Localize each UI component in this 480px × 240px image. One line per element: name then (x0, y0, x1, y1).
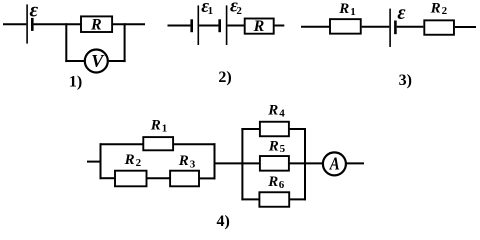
svg-text:2): 2) (218, 69, 231, 86)
battery ε2 long plate (226, 5, 228, 45)
svg-text:1: 1 (208, 5, 214, 17)
svg-text:2: 2 (442, 5, 448, 17)
wire left vertical (left parallel group) (100, 143, 102, 179)
wire bottom branch right (right group) (289, 198, 306, 200)
ammeter A (323, 152, 346, 175)
battery ε1 long plate (197, 5, 199, 45)
resistor R2 (circuit 3) (424, 20, 454, 34)
svg-text:R: R (178, 153, 189, 169)
wire right vertical (left parallel group) (214, 143, 216, 179)
svg-text:5: 5 (280, 143, 286, 155)
battery ε short thick plate (31, 18, 34, 31)
svg-text:6: 6 (279, 179, 285, 191)
wire right lead circuit 3 (455, 26, 476, 28)
wire top branch left segment (100, 143, 144, 145)
resistor R (circuit 2) (245, 19, 274, 34)
svg-text:R: R (124, 152, 135, 168)
svg-text:1): 1) (69, 73, 82, 90)
svg-text:2: 2 (236, 5, 242, 17)
resistor R4 (260, 122, 289, 137)
svg-text:ε: ε (30, 0, 39, 22)
wire right lead circuit 4 (346, 162, 364, 164)
wire top branch right segment (174, 143, 216, 145)
svg-text:1: 1 (350, 6, 356, 18)
svg-text:R: R (267, 103, 278, 119)
resistor R (circuit 1) (81, 16, 112, 32)
wire R5 to right vertical (289, 162, 306, 164)
wire top branch right (right group) (289, 128, 306, 130)
svg-text:R: R (253, 18, 265, 35)
svg-text:R: R (267, 174, 278, 190)
resistor R1 (circuit 4) (143, 137, 173, 150)
battery ε2 short thick plate (218, 19, 221, 32)
wire between R2 and R3 (147, 177, 171, 179)
wire bottom branch right (109, 60, 126, 62)
svg-text:4: 4 (279, 107, 285, 119)
wire left lead circuit 2 (168, 25, 191, 27)
wire top branch left (right group) (241, 128, 259, 130)
battery ε short thick plate (circuit 3) (394, 21, 397, 35)
wire right vertical (right parallel group) (304, 128, 306, 200)
wire bottom branch right segment (200, 177, 216, 179)
wire left vertical branch (65, 23, 67, 62)
svg-text:R: R (430, 0, 441, 16)
resistor R1 (circuit 3) (330, 19, 361, 34)
svg-text:1: 1 (162, 122, 168, 134)
wire right lead circuit 2 (275, 25, 285, 27)
wire battery to resistor (227, 25, 244, 27)
wire middle connecting segment (214, 162, 260, 164)
resistor R6 (259, 192, 289, 207)
wire left lead circuit 1 (3, 23, 26, 25)
wire between batteries (199, 25, 218, 27)
svg-text:R: R (268, 138, 279, 154)
svg-text:R: R (90, 16, 102, 33)
battery ε1 short thick plate (190, 19, 193, 32)
wire right lead circuit 1 (113, 23, 146, 25)
wire left lead circuit 3 (301, 26, 330, 28)
wire left vertical (right parallel group) (241, 128, 243, 200)
wire bottom branch left segment (100, 177, 116, 179)
wire right group to ammeter (304, 162, 322, 164)
wire battery to R2 (397, 26, 424, 28)
resistor R3 (circuit 4) (170, 171, 199, 187)
wire R1 to battery (362, 26, 390, 28)
svg-text:3: 3 (190, 158, 196, 170)
svg-text:4): 4) (217, 213, 230, 230)
svg-text:2: 2 (136, 157, 142, 169)
battery ε long plate (circuit 3) (389, 9, 391, 47)
wire left stub circuit 4 (87, 161, 102, 163)
battery ε long plate (26, 4, 28, 43)
wire right vertical branch (124, 23, 126, 62)
svg-text:R: R (338, 1, 349, 17)
wire bottom branch left (right group) (241, 198, 259, 200)
resistor R5 (260, 156, 289, 171)
svg-text:R: R (150, 117, 161, 133)
svg-text:V: V (91, 51, 105, 71)
wire bottom branch left (65, 60, 84, 62)
svg-text:3): 3) (399, 72, 412, 89)
wire battery to node (34, 23, 81, 25)
resistor R2 (circuit 4) (115, 171, 147, 187)
voltmeter V (85, 50, 108, 73)
svg-text:ε: ε (397, 2, 406, 24)
svg-text:A: A (329, 153, 340, 173)
